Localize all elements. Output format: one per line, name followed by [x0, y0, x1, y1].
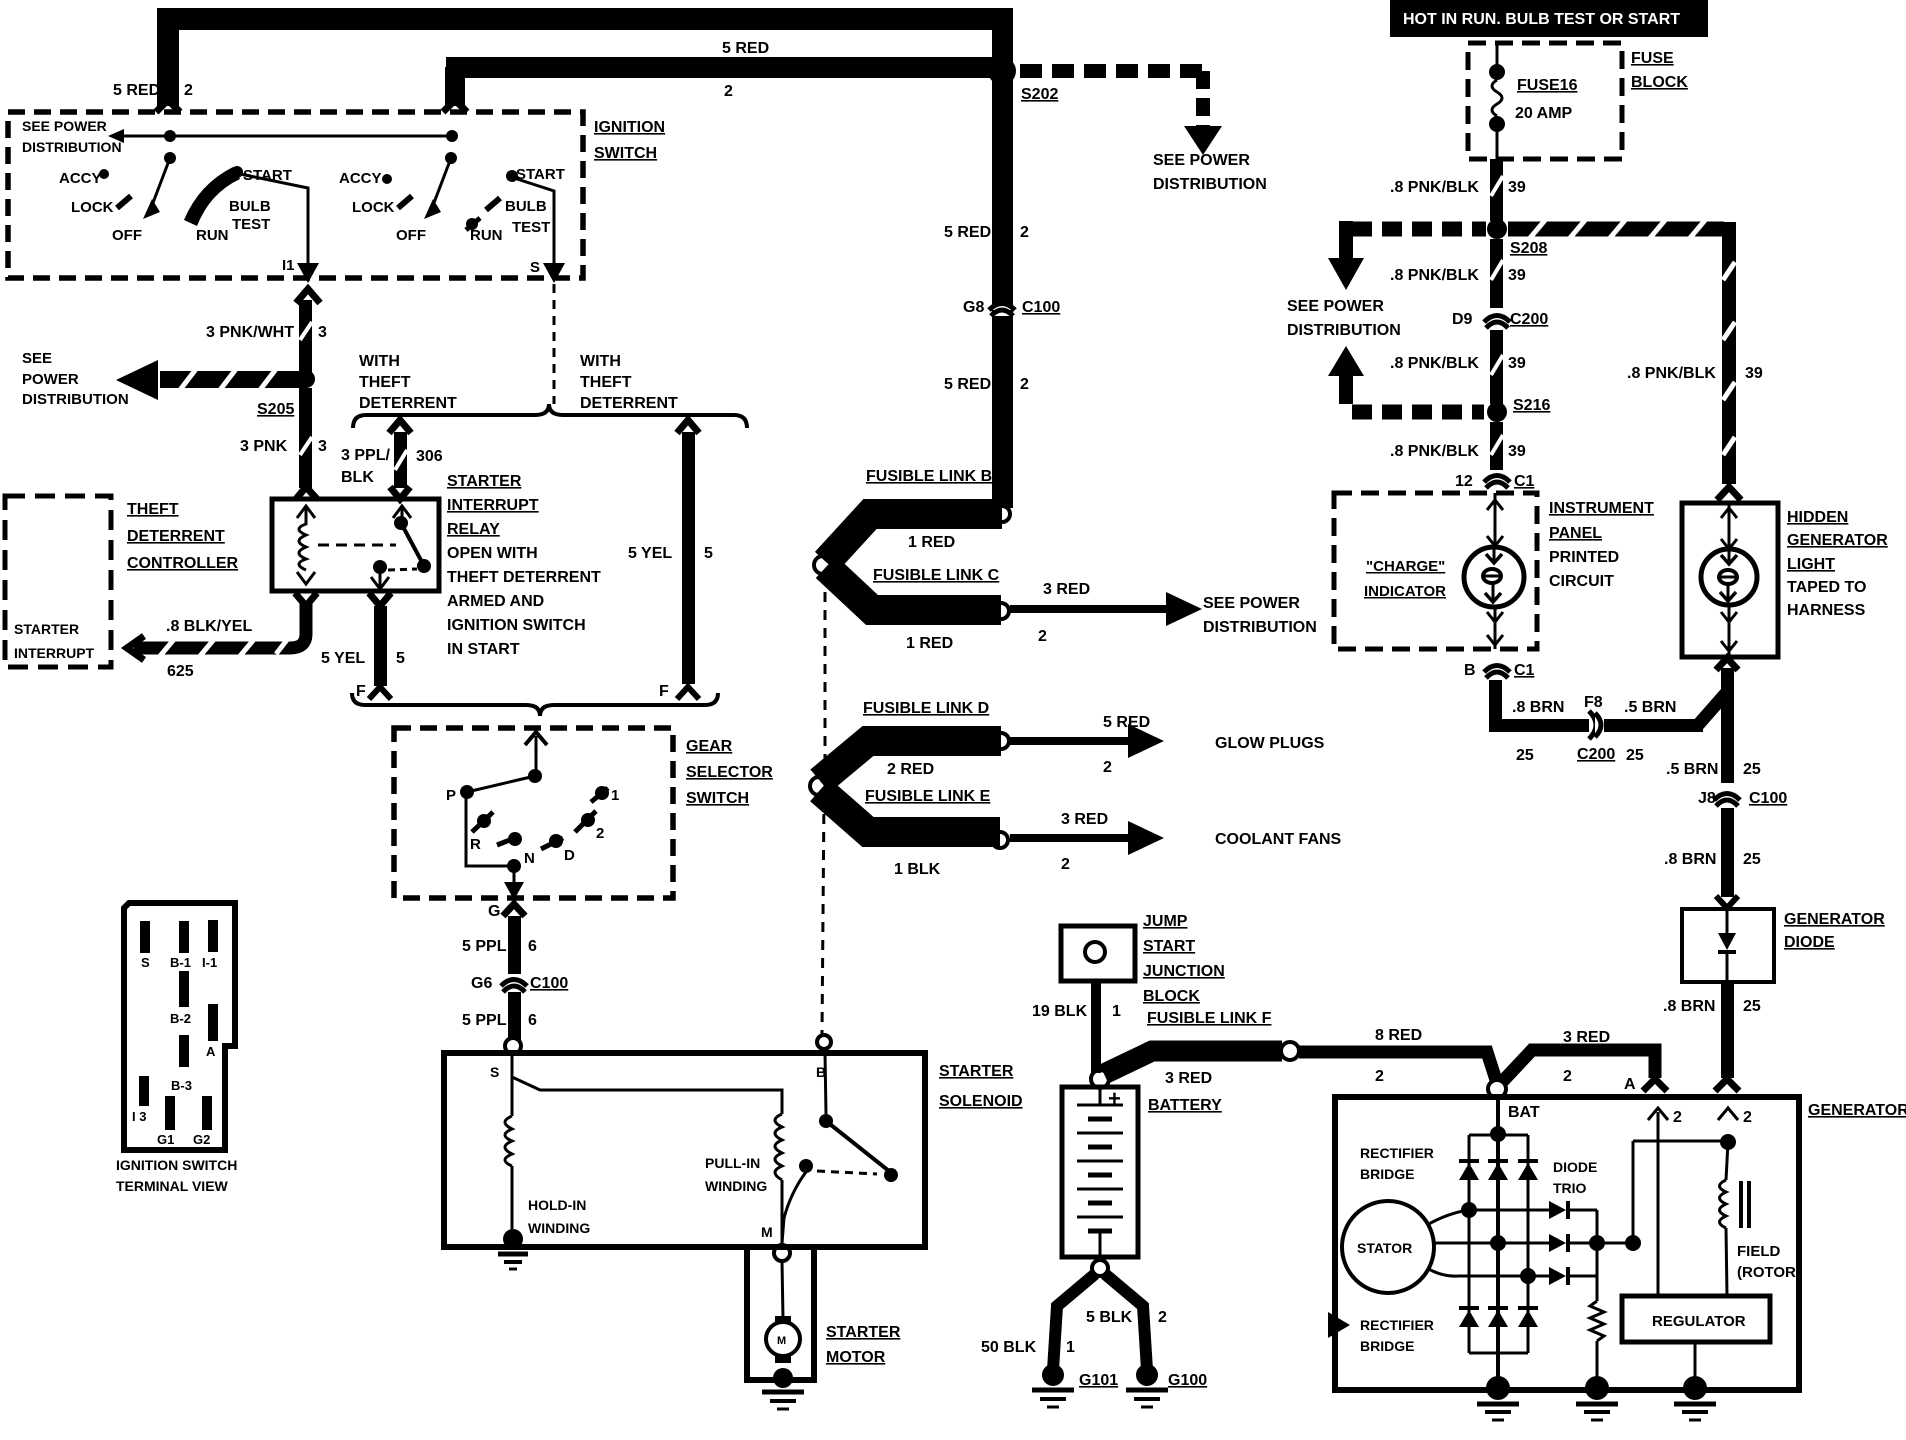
svg-text:FUSIBLE LINK B: FUSIBLE LINK B	[866, 468, 992, 485]
svg-text:HIDDEN: HIDDEN	[1787, 509, 1848, 526]
svg-text:5 RED: 5 RED	[722, 40, 769, 57]
svg-text:C200: C200	[1510, 311, 1548, 328]
svg-text:.8 PNK/BLK: .8 PNK/BLK	[1627, 365, 1716, 382]
svg-text:SEE POWER: SEE POWER	[1287, 298, 1384, 315]
svg-text:OFF: OFF	[112, 227, 142, 244]
svg-text:D9: D9	[1452, 311, 1473, 328]
svg-text:I-1: I-1	[202, 955, 217, 970]
svg-text:REGULATOR: REGULATOR	[1652, 1313, 1746, 1330]
svg-text:TEST: TEST	[232, 216, 270, 233]
svg-text:PULL-IN: PULL-IN	[705, 1155, 760, 1171]
svg-text:3: 3	[318, 438, 327, 455]
svg-text:WINDING: WINDING	[705, 1178, 767, 1194]
svg-text:C200: C200	[1577, 746, 1615, 763]
svg-text:BULB: BULB	[229, 198, 271, 215]
svg-text:BLK: BLK	[341, 469, 374, 486]
svg-text:S: S	[490, 1064, 499, 1080]
svg-text:INSTRUMENT: INSTRUMENT	[1549, 500, 1654, 517]
svg-text:5 RED: 5 RED	[944, 224, 991, 241]
svg-text:3 PNK: 3 PNK	[240, 438, 288, 455]
svg-text:HOLD-IN: HOLD-IN	[528, 1197, 586, 1213]
svg-text:2: 2	[724, 83, 733, 100]
svg-text:G2: G2	[193, 1132, 210, 1147]
svg-text:LOCK: LOCK	[71, 199, 114, 216]
svg-text:SEE POWER: SEE POWER	[1203, 595, 1300, 612]
svg-text:SEE: SEE	[22, 350, 52, 367]
svg-text:25: 25	[1626, 747, 1644, 764]
svg-text:JUNCTION: JUNCTION	[1143, 963, 1225, 980]
svg-text:STARTER: STARTER	[826, 1324, 901, 1341]
svg-text:12: 12	[1455, 473, 1473, 490]
svg-text:G8: G8	[963, 299, 984, 316]
svg-text:3 PPL/: 3 PPL/	[341, 447, 390, 464]
svg-text:HOT IN RUN. BULB TEST OR START: HOT IN RUN. BULB TEST OR START	[1403, 11, 1680, 28]
svg-text:1 BLK: 1 BLK	[894, 861, 941, 878]
svg-text:25: 25	[1743, 851, 1761, 868]
svg-text:3 RED: 3 RED	[1043, 581, 1090, 598]
svg-text:SEE POWER: SEE POWER	[22, 118, 107, 134]
svg-text:CIRCUIT: CIRCUIT	[1549, 573, 1614, 590]
svg-text:1: 1	[1066, 1339, 1075, 1356]
svg-text:5 BLK: 5 BLK	[1086, 1309, 1133, 1326]
svg-text:39: 39	[1508, 355, 1526, 372]
svg-text:A: A	[1624, 1076, 1636, 1093]
svg-text:N: N	[524, 850, 535, 867]
svg-text:R: R	[470, 836, 481, 853]
svg-text:I1: I1	[282, 257, 295, 274]
svg-text:DISTRIBUTION: DISTRIBUTION	[1203, 619, 1317, 636]
svg-text:3: 3	[318, 324, 327, 341]
svg-text:19 BLK: 19 BLK	[1032, 1003, 1088, 1020]
svg-text:COOLANT FANS: COOLANT FANS	[1215, 831, 1342, 848]
svg-text:2: 2	[1743, 1109, 1752, 1126]
svg-text:BAT: BAT	[1508, 1104, 1540, 1121]
svg-text:1: 1	[611, 787, 619, 804]
svg-text:IGNITION: IGNITION	[594, 119, 665, 136]
svg-text:5: 5	[396, 650, 405, 667]
svg-text:G100: G100	[1168, 1372, 1207, 1389]
svg-text:25: 25	[1516, 747, 1534, 764]
svg-text:20 AMP: 20 AMP	[1515, 105, 1573, 122]
svg-text:C100: C100	[1022, 299, 1060, 316]
svg-text:5 PPL: 5 PPL	[462, 1012, 507, 1029]
svg-text:FUSIBLE LINK C: FUSIBLE LINK C	[873, 567, 1000, 584]
svg-text:F8: F8	[1584, 694, 1603, 711]
svg-text:(ROTOR): (ROTOR)	[1737, 1264, 1801, 1281]
svg-text:DETERRENT: DETERRENT	[127, 528, 225, 545]
svg-text:SEE POWER: SEE POWER	[1153, 152, 1250, 169]
svg-text:BULB: BULB	[505, 198, 547, 215]
svg-text:2: 2	[184, 82, 193, 99]
svg-text:SWITCH: SWITCH	[594, 145, 657, 162]
svg-text:5 RED: 5 RED	[944, 376, 991, 393]
svg-text:TEST: TEST	[512, 219, 550, 236]
svg-text:B-1: B-1	[170, 955, 191, 970]
svg-text:1: 1	[1112, 1003, 1121, 1020]
svg-text:DIODE: DIODE	[1784, 934, 1835, 951]
svg-text:S216: S216	[1513, 397, 1550, 414]
svg-text:BLOCK: BLOCK	[1143, 988, 1200, 1005]
svg-text:TAPED TO: TAPED TO	[1787, 579, 1866, 596]
svg-text:TERMINAL VIEW: TERMINAL VIEW	[116, 1178, 229, 1194]
svg-text:2 RED: 2 RED	[887, 761, 934, 778]
svg-text:GENERATOR: GENERATOR	[1787, 532, 1888, 549]
svg-text:M: M	[761, 1224, 773, 1240]
svg-text:39: 39	[1508, 443, 1526, 460]
svg-text:5 YEL: 5 YEL	[628, 545, 672, 562]
svg-text:FUSE16: FUSE16	[1517, 77, 1578, 94]
svg-text:GEAR: GEAR	[686, 738, 733, 755]
svg-text:IGNITION SWITCH: IGNITION SWITCH	[116, 1157, 237, 1173]
svg-text:2: 2	[1020, 224, 1029, 241]
svg-text:3 PNK/WHT: 3 PNK/WHT	[206, 324, 294, 341]
svg-text:DISTRIBUTION: DISTRIBUTION	[1153, 176, 1267, 193]
svg-text:1 RED: 1 RED	[906, 635, 953, 652]
svg-text:DISTRIBUTION: DISTRIBUTION	[22, 391, 129, 408]
svg-text:BLOCK: BLOCK	[1631, 74, 1688, 91]
svg-text:FUSIBLE LINK D: FUSIBLE LINK D	[863, 700, 989, 717]
svg-text:+: +	[1108, 1086, 1121, 1111]
svg-text:ACCY: ACCY	[339, 170, 382, 187]
svg-text:.8 PNK/BLK: .8 PNK/BLK	[1390, 267, 1479, 284]
svg-text:2: 2	[1103, 759, 1112, 776]
svg-text:S202: S202	[1021, 86, 1058, 103]
svg-text:.5 BRN: .5 BRN	[1624, 699, 1676, 716]
svg-text:WITH: WITH	[359, 353, 400, 370]
svg-text:1 RED: 1 RED	[908, 534, 955, 551]
svg-text:RUN: RUN	[196, 227, 229, 244]
svg-text:50 BLK: 50 BLK	[981, 1339, 1037, 1356]
svg-text:39: 39	[1745, 365, 1763, 382]
svg-text:.8 PNK/BLK: .8 PNK/BLK	[1390, 179, 1479, 196]
svg-text:2: 2	[1038, 628, 1047, 645]
svg-text:DIODE: DIODE	[1553, 1159, 1597, 1175]
svg-text:RELAY: RELAY	[447, 521, 500, 538]
svg-text:C100: C100	[1749, 790, 1787, 807]
svg-text:G101: G101	[1079, 1372, 1118, 1389]
svg-text:.8 BRN: .8 BRN	[1512, 699, 1564, 716]
svg-text:.8 BLK/YEL: .8 BLK/YEL	[166, 618, 252, 635]
svg-text:25: 25	[1743, 998, 1761, 1015]
svg-text:M: M	[777, 1335, 786, 1347]
svg-text:C1: C1	[1514, 662, 1535, 679]
svg-text:GENERATOR: GENERATOR	[1784, 911, 1885, 928]
svg-text:F: F	[356, 683, 366, 700]
svg-text:POWER: POWER	[22, 371, 79, 388]
svg-text:INTERRUPT: INTERRUPT	[14, 645, 95, 661]
svg-text:5 PPL: 5 PPL	[462, 938, 507, 955]
svg-text:B-2: B-2	[170, 1011, 191, 1026]
svg-text:.8 PNK/BLK: .8 PNK/BLK	[1390, 355, 1479, 372]
svg-text:3 RED: 3 RED	[1165, 1070, 1212, 1087]
svg-text:306: 306	[416, 448, 443, 465]
svg-text:HARNESS: HARNESS	[1787, 602, 1866, 619]
svg-text:S: S	[141, 955, 150, 970]
svg-text:3 RED: 3 RED	[1061, 811, 1108, 828]
svg-text:A: A	[206, 1044, 216, 1059]
svg-text:S205: S205	[257, 401, 294, 418]
svg-text:MOTOR: MOTOR	[826, 1349, 886, 1366]
svg-text:LOCK: LOCK	[352, 199, 395, 216]
svg-text:BATTERY: BATTERY	[1148, 1097, 1222, 1114]
svg-text:LIGHT: LIGHT	[1787, 556, 1835, 573]
svg-text:DISTRIBUTION: DISTRIBUTION	[1287, 322, 1401, 339]
svg-text:PRINTED: PRINTED	[1549, 549, 1619, 566]
svg-text:SELECTOR: SELECTOR	[686, 764, 773, 781]
svg-text:625: 625	[167, 663, 194, 680]
svg-text:5 RED: 5 RED	[1103, 714, 1150, 731]
svg-text:S208: S208	[1510, 240, 1547, 257]
svg-text:SWITCH: SWITCH	[686, 790, 749, 807]
svg-text:ACCY: ACCY	[59, 170, 102, 187]
svg-text:JUMP: JUMP	[1143, 913, 1188, 930]
svg-text:PANEL: PANEL	[1549, 525, 1602, 542]
svg-text:C1: C1	[1514, 473, 1535, 490]
svg-text:2: 2	[1158, 1309, 1167, 1326]
svg-text:IGNITION SWITCH: IGNITION SWITCH	[447, 617, 586, 634]
svg-text:I 3: I 3	[132, 1109, 146, 1124]
svg-text:P: P	[446, 787, 456, 804]
svg-text:8 RED: 8 RED	[1375, 1027, 1422, 1044]
svg-text:FUSE: FUSE	[1631, 50, 1674, 67]
svg-text:5 YEL: 5 YEL	[321, 650, 365, 667]
svg-text:OFF: OFF	[396, 227, 426, 244]
svg-text:"CHARGE": "CHARGE"	[1366, 558, 1445, 575]
svg-text:G: G	[488, 903, 500, 920]
svg-text:DISTRIBUTION: DISTRIBUTION	[22, 139, 122, 155]
svg-text:5 RED: 5 RED	[113, 82, 160, 99]
svg-text:FUSIBLE LINK E: FUSIBLE LINK E	[865, 788, 991, 805]
svg-text:CONTROLLER: CONTROLLER	[127, 555, 239, 572]
svg-text:RECTIFIER: RECTIFIER	[1360, 1145, 1434, 1161]
svg-text:5: 5	[704, 545, 713, 562]
svg-text:S: S	[530, 259, 540, 276]
svg-text:STATOR: STATOR	[1357, 1240, 1412, 1256]
svg-text:GLOW PLUGS: GLOW PLUGS	[1215, 735, 1325, 752]
svg-text:ARMED AND: ARMED AND	[447, 593, 544, 610]
svg-text:STARTER: STARTER	[447, 473, 522, 490]
svg-text:2: 2	[1061, 856, 1070, 873]
svg-text:THEFT: THEFT	[359, 374, 411, 391]
svg-text:DETERRENT: DETERRENT	[580, 395, 678, 412]
svg-text:IN START: IN START	[447, 641, 520, 658]
svg-text:THEFT DETERRENT: THEFT DETERRENT	[447, 569, 601, 586]
svg-text:TRIO: TRIO	[1553, 1180, 1587, 1196]
svg-text:6: 6	[528, 938, 537, 955]
svg-text:INTERRUPT: INTERRUPT	[447, 497, 539, 514]
svg-text:GENERATOR: GENERATOR	[1808, 1102, 1906, 1119]
svg-text:6: 6	[528, 1012, 537, 1029]
svg-text:DETERRENT: DETERRENT	[359, 395, 457, 412]
svg-text:25: 25	[1743, 761, 1761, 778]
svg-text:STARTER: STARTER	[14, 621, 79, 637]
svg-text:RECTIFIER: RECTIFIER	[1360, 1317, 1434, 1333]
svg-text:STARTER: STARTER	[939, 1063, 1014, 1080]
svg-text:G6: G6	[471, 975, 492, 992]
svg-text:2: 2	[1375, 1068, 1384, 1085]
svg-text:39: 39	[1508, 179, 1526, 196]
svg-text:THEFT: THEFT	[127, 501, 179, 518]
svg-text:SOLENOID: SOLENOID	[939, 1093, 1023, 1110]
svg-text:OPEN WITH: OPEN WITH	[447, 545, 538, 562]
svg-text:.8 PNK/BLK: .8 PNK/BLK	[1390, 443, 1479, 460]
svg-text:FUSIBLE LINK F: FUSIBLE LINK F	[1147, 1010, 1272, 1027]
svg-text:2: 2	[596, 825, 604, 842]
svg-text:39: 39	[1508, 267, 1526, 284]
svg-text:2: 2	[1020, 376, 1029, 393]
svg-text:F: F	[659, 683, 669, 700]
svg-text:B: B	[1464, 662, 1476, 679]
svg-text:.8 BRN: .8 BRN	[1664, 851, 1716, 868]
svg-text:.5 BRN: .5 BRN	[1666, 761, 1718, 778]
svg-text:RUN: RUN	[470, 227, 503, 244]
svg-text:D: D	[564, 847, 575, 864]
svg-text:WITH: WITH	[580, 353, 621, 370]
svg-text:BRIDGE: BRIDGE	[1360, 1338, 1414, 1354]
svg-text:BRIDGE: BRIDGE	[1360, 1166, 1414, 1182]
svg-text:2: 2	[1673, 1109, 1682, 1126]
svg-text:.8 BRN: .8 BRN	[1663, 998, 1715, 1015]
svg-text:START: START	[1143, 938, 1195, 955]
svg-text:INDICATOR: INDICATOR	[1364, 583, 1446, 600]
svg-text:G1: G1	[157, 1132, 174, 1147]
svg-text:B-3: B-3	[171, 1078, 192, 1093]
svg-text:THEFT: THEFT	[580, 374, 632, 391]
svg-text:3 RED: 3 RED	[1563, 1029, 1610, 1046]
svg-text:WINDING: WINDING	[528, 1220, 590, 1236]
svg-text:C100: C100	[530, 975, 568, 992]
svg-text:FIELD: FIELD	[1737, 1243, 1780, 1260]
svg-text:2: 2	[1563, 1068, 1572, 1085]
